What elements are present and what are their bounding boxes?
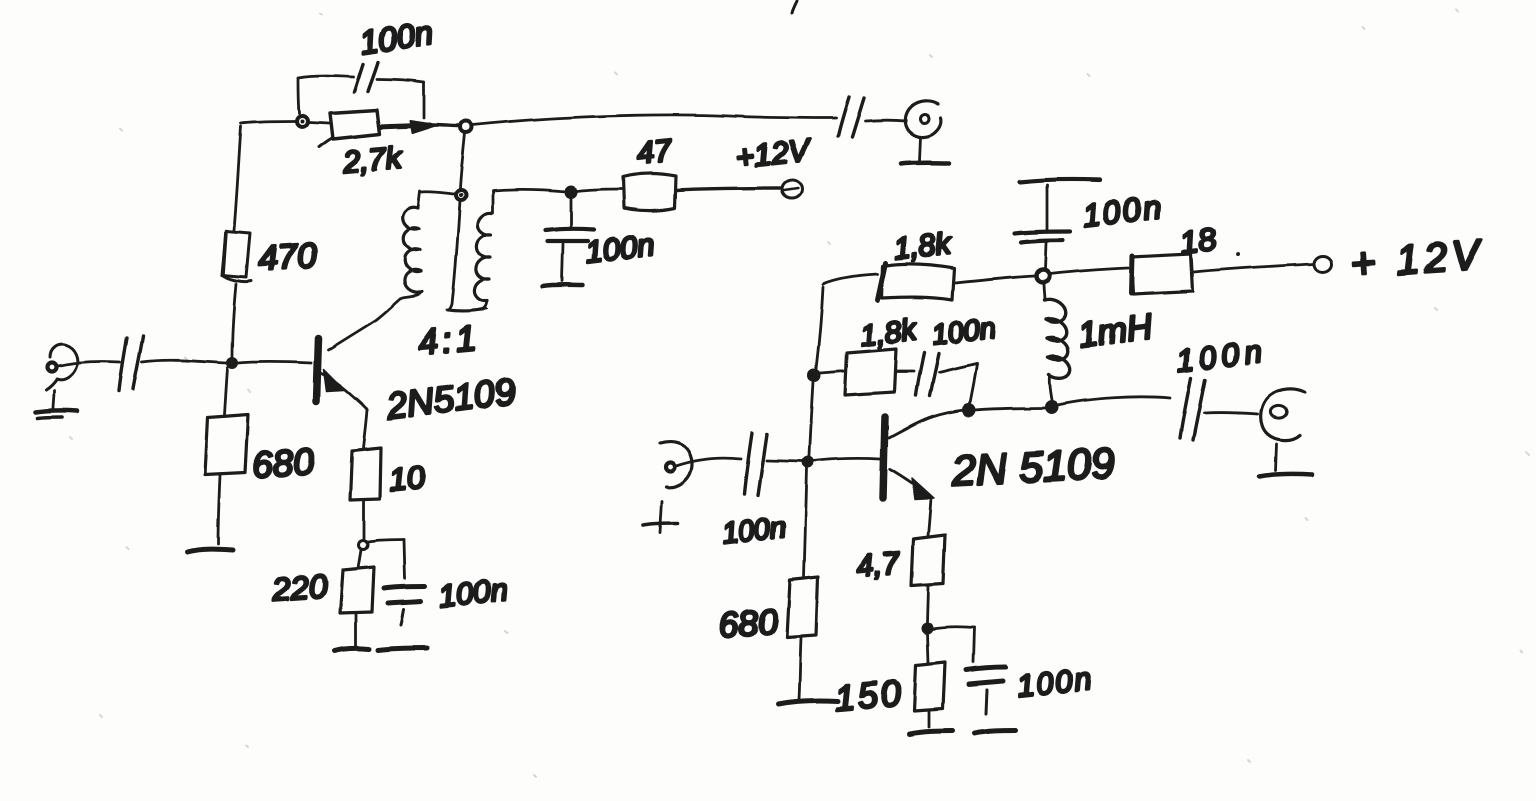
wire node G up to R8 (816, 287, 823, 369)
wire R2 to node B (thick) (380, 125, 430, 127)
ground (J1) (53, 391, 54, 409)
transistor Q2 emitter (890, 469, 930, 496)
inductor L1 1mH (1044, 283, 1045, 300)
resistor R7 680 (787, 577, 818, 637)
resistor R1 470 (222, 231, 250, 277)
capacitor C2 100n plates (354, 64, 363, 92)
svg-text:100n: 100n (930, 312, 998, 352)
wire T1 secondary top to node D (493, 190, 566, 192)
wire node I to C10 (1058, 397, 1170, 405)
ground (R7) (779, 700, 838, 704)
svg-text:100n: 100n (437, 572, 509, 614)
ground (C5) (378, 648, 427, 650)
svg-text:2,7k: 2,7k (341, 140, 405, 180)
wire node J to node I (975, 408, 1046, 410)
node I (below L1) (1046, 401, 1058, 413)
svg-text:470: 470 (257, 236, 319, 279)
resistor R6 680 : top lead (224, 368, 227, 414)
ground (R5) (334, 648, 369, 651)
wire R4 to node E (363, 501, 366, 539)
resistor R6 680 (205, 414, 248, 475)
wire R1 top to node A (234, 126, 241, 230)
ground (C4) (543, 285, 583, 286)
wire R9 to C7 (896, 370, 914, 373)
ground (R6) (188, 549, 233, 552)
resistor R2 2.7k lead (309, 122, 329, 123)
capacitor C9 100n (emitter bypass, right) (966, 667, 1006, 670)
transformer T1 secondary winding (right) (492, 192, 495, 213)
wire T1 primary to collector Q1 (328, 291, 422, 350)
capacitor C5 100n (emitter bypass, left) (384, 586, 425, 588)
node G (809, 370, 820, 381)
wire C1 to base node (142, 360, 227, 363)
svg-text:4:1: 4:1 (416, 317, 481, 363)
resistor R8 1.8k (collector feed) (881, 264, 954, 300)
wire node D to R3 (577, 189, 621, 191)
capacitor C4 100n (decoupling, left) (570, 197, 573, 226)
capacitor C6 100n (input coupling, right stage) (744, 433, 752, 494)
terminal +12V (left stage) (782, 180, 802, 198)
resistor R9 1.8k (feedback) (845, 349, 896, 395)
wire R8 to node H (955, 276, 1035, 283)
output connector J4 (right stage) (1261, 389, 1305, 440)
capacitor C1 100n (input coupling, left stage) (119, 338, 127, 391)
resistor R12 150 (914, 662, 945, 711)
transistor Q2 bar (883, 417, 885, 498)
wire R3 to +12V terminal (677, 188, 780, 190)
wire R11 to node K (927, 586, 928, 622)
wire node K to C9 (932, 627, 974, 629)
wire C3 to J2 (865, 119, 906, 123)
svg-text:1mH: 1mH (1076, 307, 1155, 355)
ground (R12) (910, 731, 953, 734)
resistor R5 220 (358, 550, 361, 568)
transformer T1 primary winding (left) (421, 192, 454, 194)
node K (922, 623, 932, 633)
resistor R4 10 (350, 448, 381, 500)
svg-text:10: 10 (387, 459, 426, 498)
wire node E to C5 (368, 540, 404, 542)
svg-text:1,8k: 1,8k (892, 227, 954, 266)
wire node F up to node G (809, 381, 813, 456)
node D (566, 187, 577, 198)
resistor R3 47 (623, 174, 676, 211)
wire C7 to node J (939, 364, 977, 373)
wire node B long to output cap C3 (472, 115, 836, 125)
wire emitter to R4 (363, 410, 367, 449)
svg-text:18: 18 (1178, 220, 1218, 261)
junction blob / arrow (410, 121, 437, 133)
svg-text:+12V: +12V (734, 132, 814, 175)
svg-text:100n: 100n (358, 14, 436, 61)
feedback wire node G to R9 (820, 371, 845, 373)
wire R10 to +12V terminal (1194, 264, 1313, 272)
svg-text:680: 680 (251, 441, 316, 486)
ground (J4) (1276, 444, 1277, 471)
capacitor C3 (output coupling, left stage) (838, 97, 849, 136)
transistor Q1 emitter (321, 373, 367, 410)
svg-text:220: 220 (270, 567, 329, 608)
svg-text:100n: 100n (1080, 188, 1165, 234)
transformer T1 center tap wire (448, 200, 460, 310)
wire node H to R10 (1050, 268, 1128, 274)
wire C2 right bracket (377, 79, 424, 82)
ground (J3) (660, 501, 662, 533)
wire J1 to C1 (58, 361, 120, 366)
wire emitter to R11 (928, 498, 931, 536)
wire node K to R12 (927, 633, 928, 663)
node A (297, 116, 308, 127)
ground (J2) (920, 137, 921, 161)
node J (collector) (963, 404, 975, 416)
svg-text:150: 150 (833, 672, 905, 719)
svg-text:47: 47 (635, 132, 675, 171)
resistor R10 18 (1131, 254, 1193, 294)
transistor Q1 bar (316, 338, 318, 401)
svg-text:100n: 100n (584, 227, 657, 270)
wire J3 to C6 (676, 458, 741, 466)
transistor Q1 2N5109 : base wire (238, 362, 311, 363)
svg-text:4,7: 4,7 (855, 545, 903, 584)
wire C10 to J4 (1204, 413, 1258, 414)
node base Q1 (227, 358, 237, 368)
wire node B down to node C (460, 133, 465, 188)
svg-text:680: 680 (718, 602, 780, 645)
input connector J1 (46, 344, 77, 390)
capacitor C10 100n (output coupling, right stage) (1180, 378, 1191, 438)
input connector J3 (660, 442, 692, 488)
transistor Q2 2N5109 : base wire (813, 458, 880, 461)
node F (base of Q2) (803, 457, 813, 467)
terminal +12V (right stage) (1314, 256, 1332, 272)
capacitor C8 100n (top, right stage) (1045, 243, 1046, 269)
capacitor C7 100n (feedback) (916, 353, 924, 395)
output connector J2 (left stage) (905, 101, 941, 137)
svg-text:2N5109: 2N5109 (383, 370, 518, 427)
svg-text:100n: 100n (1015, 661, 1095, 704)
resistor R2 2.7k (330, 110, 380, 139)
node H (1037, 270, 1050, 283)
wire node up to R1 470 (232, 284, 236, 357)
wire node F down to R7 (804, 468, 807, 577)
svg-text:+ 12V: + 12V (1349, 231, 1485, 287)
svg-text:100n: 100n (720, 511, 788, 551)
stray pen mark top center (792, 1, 797, 13)
node B (461, 122, 472, 133)
wire C6 to node F (767, 460, 803, 461)
svg-text:1,8k: 1,8k (858, 313, 920, 353)
resistor R11 4,7 (911, 535, 945, 585)
svg-text:2N 5109: 2N 5109 (950, 440, 1116, 496)
node E (359, 541, 368, 550)
capacitor C2 100n (feedback over R2) : left bracket wire (298, 79, 299, 113)
node C (transformer tap) (456, 190, 466, 200)
transistor Q2 collector (889, 410, 964, 438)
ground (C9) (975, 730, 1015, 733)
svg-text:100n: 100n (1175, 333, 1270, 379)
